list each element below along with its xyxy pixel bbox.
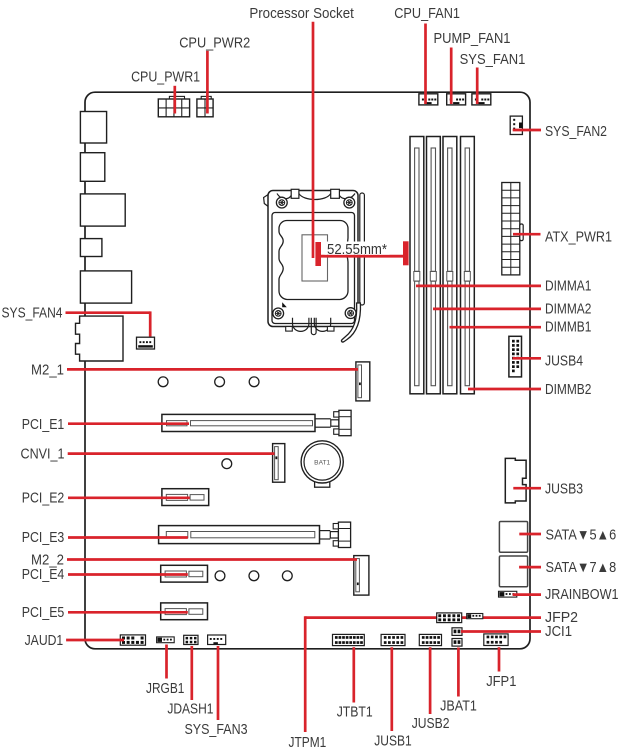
leader CPU_FAN1: [424, 24, 427, 105]
svg-text:CPU_PWR2: CPU_PWR2: [179, 35, 250, 51]
leader DIMMA1: [416, 285, 541, 288]
leader JCI1: [461, 630, 541, 633]
svg-text:JUSB1: JUSB1: [374, 733, 411, 749]
DIMM slot DIMMB2: [461, 137, 475, 394]
CPU socket top tab left: [291, 189, 299, 198]
CPU socket bottom tongue: [311, 318, 316, 335]
svg-text:JBAT1: JBAT1: [440, 699, 477, 715]
leader JDASH1: [190, 646, 193, 700]
motherboard outline: [85, 92, 530, 649]
svg-text:SATA▼5▲6: SATA▼5▲6: [546, 528, 617, 544]
CPU socket load plate spring curves: [299, 194, 331, 200]
CPU socket top tab right: [331, 189, 340, 198]
PCIe x1 slot PCI_E4: [161, 565, 208, 582]
svg-text:DIMMB1: DIMMB1: [545, 320, 591, 336]
svg-text:JUSB3: JUSB3: [545, 482, 583, 498]
CPU socket bottom arch right: [314, 318, 330, 332]
leader JUSB1: [390, 647, 393, 731]
svg-text:CPU_PWR1: CPU_PWR1: [131, 70, 200, 86]
mounting hole: [215, 571, 225, 581]
leader SATA 5/6: [519, 533, 541, 536]
svg-text:JTPM1: JTPM1: [289, 735, 327, 751]
CPU socket screw bottom-left: [273, 308, 284, 319]
battery BAT1: [301, 441, 343, 483]
mounting hole: [158, 377, 168, 387]
CPU socket wavy ILM opening: [279, 221, 348, 300]
leader JFP1: [498, 647, 501, 671]
CPU socket bottom tab left: [286, 327, 293, 332]
svg-text:SYS_FAN1: SYS_FAN1: [460, 52, 526, 68]
svg-text:JUSB2: JUSB2: [412, 716, 450, 732]
leader SYS_FAN3: [217, 646, 220, 720]
CPU socket bottom arch left: [293, 318, 309, 332]
front panel header JFP2 part B: [467, 614, 483, 619]
rear I/O block 2: [80, 153, 104, 182]
svg-text:SYS_FAN3: SYS_FAN3: [184, 722, 247, 738]
leader SYS_FAN2: [513, 129, 541, 132]
svg-text:M2_1: M2_1: [31, 362, 64, 378]
leader DIMMB1: [450, 326, 542, 329]
CPU socket left flap: [264, 195, 269, 207]
leader JTBT1: [352, 647, 355, 702]
svg-text:JRAINBOW1: JRAINBOW1: [545, 587, 619, 603]
leader PCI_E2: [68, 496, 190, 499]
leader line JFP2 / JTPM1: [305, 616, 541, 619]
leader JAUD1: [66, 639, 124, 642]
RGB header JRAINBOW1: [499, 591, 517, 597]
fan header SYS_FAN1: [472, 94, 491, 105]
svg-text:SYS_FAN4: SYS_FAN4: [2, 306, 63, 322]
svg-text:SATA▼7▲8: SATA▼7▲8: [546, 560, 617, 576]
svg-text:PUMP_FAN1: PUMP_FAN1: [434, 31, 511, 47]
fan header SYS_FAN2: [510, 116, 522, 134]
svg-text:DIMMA2: DIMMA2: [545, 301, 591, 317]
leader DIMMB2: [468, 388, 541, 391]
connector SATA 5/6: [499, 522, 527, 553]
mounting hole: [249, 377, 259, 387]
M.2 slot M2_1: [356, 362, 370, 401]
svg-text:JAUD1: JAUD1: [25, 633, 64, 649]
leader JUSB4: [513, 357, 542, 360]
svg-text:SYS_FAN2: SYS_FAN2: [545, 124, 607, 140]
CPU socket lever rod right side: [360, 193, 365, 305]
CPU socket screw bottom-right: [345, 308, 356, 319]
CPU socket screw top-left: [276, 197, 287, 208]
RGB header JRGB1: [157, 637, 175, 643]
PCIe x1 slot PCI_E2: [162, 489, 209, 506]
leader JUSB2: [429, 647, 432, 714]
leader PUMP_FAN1: [450, 48, 453, 105]
PCIe x1 slot PCI_E5: [161, 603, 208, 620]
jumper JCI1 lower / JBAT1: [452, 639, 462, 647]
dimension 52.55mm: [315, 242, 321, 266]
CNVi slot CNVI_1: [273, 444, 285, 483]
PCIe x16 slot PCI_E1: [162, 414, 315, 431]
leader CPU_PWR2: [206, 51, 209, 114]
CPU socket screw top-right: [344, 197, 355, 208]
DIMM slot DIMMA2: [427, 137, 441, 394]
fan header SYS_FAN3: [208, 635, 226, 645]
CPU socket bottom tab right: [327, 327, 334, 332]
svg-text:JCI1: JCI1: [545, 624, 572, 640]
svg-text:CNVI_1: CNVI_1: [21, 447, 65, 463]
PCIe release latch of PCI_E1: [315, 418, 331, 420]
leader ATX_PWR1: [513, 233, 541, 236]
mounting hole: [282, 571, 292, 581]
connector CPU_PWR1: [169, 96, 184, 99]
leader JUSB3: [513, 487, 541, 490]
fan header CPU_FAN1: [419, 94, 438, 105]
leader PCI_E5: [68, 611, 188, 614]
svg-text:JFP1: JFP1: [486, 674, 516, 690]
fan header PUMP_FAN1: [447, 94, 466, 105]
rear I/O block 1: [80, 112, 106, 144]
jumper JCI1 upper: [452, 628, 462, 636]
connector SATA 7/8: [499, 556, 527, 587]
mounting hole: [222, 459, 232, 469]
leader JRAINBOW1: [513, 593, 541, 596]
svg-text:CPU_FAN1: CPU_FAN1: [394, 6, 460, 22]
header JUSB1: [381, 634, 405, 645]
CPU socket center pad: [302, 235, 328, 281]
PCIe release latch of PCI_E3: [320, 530, 331, 532]
rear I/O block 4: [80, 239, 102, 257]
mounting hole: [249, 571, 259, 581]
PCIe x16 slot PCI_E3: [159, 526, 320, 544]
leader M2_2: [67, 558, 357, 561]
leader CPU_PWR1: [173, 86, 176, 114]
leader PCI_E1: [68, 422, 189, 425]
svg-text:52.55mm*: 52.55mm*: [327, 242, 387, 258]
leader JRGB1: [165, 645, 168, 679]
leader JBAT1: [457, 648, 460, 697]
connector CPU_PWR2: [201, 96, 211, 99]
leader SYS_FAN1: [476, 68, 479, 105]
front panel header JFP2 part A: [437, 613, 462, 623]
leader SATA 7/8: [519, 566, 541, 569]
USB header JUSB4: [509, 336, 522, 377]
svg-text:PCI_E3: PCI_E3: [22, 530, 65, 546]
svg-text:PCI_E4: PCI_E4: [22, 567, 65, 583]
rear audio I/O block: [76, 316, 124, 361]
leader Processor Socket: [312, 22, 315, 258]
M.2 slot M2_2: [354, 556, 369, 596]
svg-text:PCI_E1: PCI_E1: [22, 417, 65, 433]
svg-text:ATX_PWR1: ATX_PWR1: [545, 230, 612, 246]
leader M2_1: [67, 368, 358, 371]
DIMM slot DIMMB1: [443, 137, 457, 394]
svg-text:PCI_E5: PCI_E5: [22, 605, 65, 621]
svg-text:DIMMB2: DIMMB2: [545, 382, 591, 398]
rear I/O block 3: [80, 194, 125, 226]
CPU socket lever hook: [342, 303, 361, 342]
CPU socket pin1 triangle: [282, 302, 287, 307]
CPU socket inner plate: [272, 213, 355, 324]
header JTBT1: [333, 634, 365, 645]
fan header SYS_FAN4: [137, 337, 155, 349]
leader PCI_E3: [68, 536, 188, 539]
USB 3.2 header JUSB3: [505, 458, 526, 502]
header JDASH1: [184, 635, 198, 644]
leader CNVI_1: [68, 452, 275, 455]
svg-text:JTBT1: JTBT1: [337, 704, 373, 720]
rear I/O block 5: [80, 271, 131, 303]
CPU socket outer bracket: [268, 191, 358, 327]
svg-text:JUSB4: JUSB4: [545, 354, 583, 370]
header JUSB2: [419, 634, 441, 645]
svg-text:JDASH1: JDASH1: [167, 701, 213, 717]
svg-text:DIMMA1: DIMMA1: [545, 278, 591, 294]
leader PCI_E4: [68, 573, 188, 576]
leader DIMMA2: [433, 308, 541, 311]
audio header JAUD1: [120, 635, 145, 645]
DIMM slot DIMMA1: [410, 137, 424, 394]
mounting hole: [215, 377, 225, 387]
svg-text:PCI_E2: PCI_E2: [22, 491, 65, 507]
svg-text:BAT1: BAT1: [314, 459, 330, 466]
connector ATX_PWR1 24-pin: [502, 183, 520, 275]
header JFP1: [484, 634, 508, 646]
svg-text:Processor Socket: Processor Socket: [249, 6, 354, 22]
leader SYS_FAN4: [66, 311, 151, 314]
svg-text:M2_2: M2_2: [31, 552, 64, 568]
battery BAT1 retaining tab: [315, 478, 330, 487]
svg-text:JRGB1: JRGB1: [146, 681, 184, 697]
